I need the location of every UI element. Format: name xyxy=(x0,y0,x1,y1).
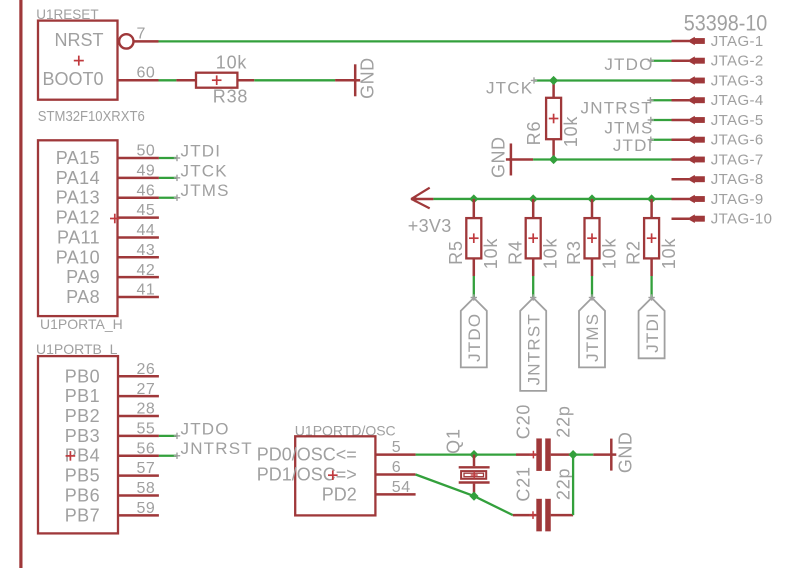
wire junction area JTAG-7 xyxy=(533,158,671,160)
pin name BOOT0 xyxy=(42,69,103,89)
NRST pin inversion circle xyxy=(119,34,133,48)
junction bus R5 xyxy=(469,194,478,203)
resistor R6 top pin xyxy=(552,80,555,97)
ground GND2 at R6 xyxy=(488,137,512,179)
svg-text:+3V3: +3V3 xyxy=(408,216,452,236)
pin name PD1/OSC=&gt; xyxy=(257,464,357,484)
name C20 xyxy=(514,404,534,439)
svg-text:59: 59 xyxy=(137,500,156,517)
origin cross R2 xyxy=(647,233,657,243)
label cross JNTRST xyxy=(647,97,653,103)
svg-text:10k: 10k xyxy=(561,116,581,148)
resistor R4 body xyxy=(526,218,541,258)
svg-text:22p: 22p xyxy=(554,468,574,500)
supply label +3V3 xyxy=(408,216,452,236)
pin number 7 xyxy=(137,25,146,42)
svg-text:JTAG-6: JTAG-6 xyxy=(711,132,764,149)
svg-text:JTCK: JTCK xyxy=(486,78,533,97)
label cross JTDO xyxy=(648,58,654,64)
svg-text:PA9: PA9 xyxy=(66,267,100,287)
junction bus R3 xyxy=(587,194,596,203)
svg-text:JTMS: JTMS xyxy=(604,118,653,137)
resistor R6 body xyxy=(546,98,561,139)
net label JTMS xyxy=(604,118,653,137)
label cross JTDI xyxy=(174,155,180,161)
label cross JTDO PB xyxy=(174,433,180,439)
resistor R5 body xyxy=(466,218,481,258)
pin name NRST xyxy=(55,30,104,50)
net label JTDI xyxy=(613,136,654,155)
resistor R38 left pin xyxy=(176,79,196,82)
wire GND to R6 bottom xyxy=(509,158,533,161)
pin name PD2 xyxy=(322,484,357,504)
net label JNTRST at PB xyxy=(181,439,253,458)
pin number 5 xyxy=(392,439,401,456)
svg-text:JTDI: JTDI xyxy=(643,312,662,353)
IC U1RESET name label xyxy=(36,7,98,22)
junction crystal bottom xyxy=(469,492,478,501)
pin 55 wire (PB3) xyxy=(118,435,159,438)
pin 49 wire (PA14) xyxy=(118,177,159,180)
origin cross U1PORTA_H xyxy=(110,214,120,224)
svg-text:PA8: PA8 xyxy=(66,287,100,307)
pin number 45 xyxy=(137,202,156,219)
svg-text:PA14: PA14 xyxy=(56,168,100,188)
name R4 xyxy=(505,240,525,265)
resistor R3 body xyxy=(585,218,600,258)
pin 50 wire (PA15) xyxy=(118,157,159,160)
svg-text:26: 26 xyxy=(137,361,156,378)
svg-text:10k: 10k xyxy=(659,238,679,270)
svg-text:JTAG-8: JTAG-8 xyxy=(711,171,764,188)
svg-text:R4: R4 xyxy=(505,240,525,265)
pin number 55 xyxy=(137,420,156,437)
value 10k of R3 xyxy=(599,238,619,270)
label cross JTMS xyxy=(174,195,180,201)
pin name PA9 xyxy=(66,267,100,287)
svg-text:GND: GND xyxy=(357,57,377,99)
resistor R4 top pin xyxy=(532,199,535,218)
svg-text:10k: 10k xyxy=(541,238,561,270)
svg-text:45: 45 xyxy=(137,202,156,219)
svg-text:R2: R2 xyxy=(624,240,644,265)
pin name PA11 xyxy=(57,227,100,247)
wire net JTDI stub at PA xyxy=(159,157,177,159)
svg-text:JTAG-1: JTAG-1 xyxy=(711,33,764,50)
pin 27 wire (PB1) xyxy=(118,395,159,398)
net flag JTDO xyxy=(461,298,487,368)
net flag JTDI xyxy=(639,298,665,358)
wire R38 to GND xyxy=(254,79,335,81)
resistor R2 top pin xyxy=(650,199,653,218)
svg-text:JTDI: JTDI xyxy=(613,136,654,155)
crystal Q1 bottom plate xyxy=(459,481,490,483)
net label JNTRST xyxy=(581,99,653,118)
junction bus R2 xyxy=(647,194,656,203)
resistor R2 body xyxy=(644,218,659,258)
origin cross Q1 xyxy=(471,472,478,479)
svg-text:PA11: PA11 xyxy=(57,227,100,247)
pin 7 wire (NRST) xyxy=(134,40,159,43)
pin 59 wire (PB7) xyxy=(118,514,159,517)
pin number 27 xyxy=(137,381,156,398)
svg-text:JTAG-3: JTAG-3 xyxy=(711,72,764,89)
svg-text:44: 44 xyxy=(137,222,156,239)
svg-text:PB7: PB7 xyxy=(65,505,100,525)
origin cross R4 xyxy=(528,233,538,243)
origin cross R3 xyxy=(587,233,597,243)
wire R4 to flag xyxy=(532,276,534,298)
IC U1RESET box xyxy=(38,21,118,100)
svg-text:43: 43 xyxy=(137,242,156,259)
wire net JTDO stub xyxy=(651,60,672,62)
label cross JNTRST PB xyxy=(174,453,180,459)
origin cross R5 xyxy=(469,233,479,243)
pin number 43 xyxy=(137,242,156,259)
origin cross C20 xyxy=(530,451,538,459)
pin name PD0/OSC&lt;= xyxy=(257,445,357,465)
junction bus R4 xyxy=(529,194,538,203)
svg-text:JTMS: JTMS xyxy=(181,181,230,200)
pin number 57 xyxy=(137,460,156,477)
svg-text:6: 6 xyxy=(392,459,401,476)
net label JTDI at PA xyxy=(181,142,222,161)
pin 46 wire (PA13) xyxy=(118,196,159,199)
wire PD1 diagonal xyxy=(416,475,513,516)
resistor R6 bottom pin xyxy=(552,139,555,159)
name Q1 xyxy=(443,428,463,454)
wire net JTCK stub at PA xyxy=(159,177,177,179)
svg-text:JNTRST: JNTRST xyxy=(524,313,543,385)
pin 26 wire (PB0) xyxy=(118,375,159,378)
origin cross R6 xyxy=(549,114,559,124)
pin name PA13 xyxy=(56,188,100,208)
origin cross U1RESET xyxy=(74,56,84,66)
pin 41 wire (PA8) xyxy=(118,296,159,299)
wire net JTDI stub xyxy=(651,139,672,141)
net label JTDO xyxy=(604,55,653,74)
origin cross C21 xyxy=(529,511,537,519)
svg-text:PD0/OSC<=: PD0/OSC<= xyxy=(257,445,357,465)
origin cross U1PORTB_L xyxy=(66,451,76,461)
net label JTCK at PA xyxy=(181,161,228,180)
pin number 58 xyxy=(137,480,156,497)
svg-text:22p: 22p xyxy=(554,405,574,437)
pin 5 wire (PD0) xyxy=(375,453,415,456)
pin number 59 xyxy=(137,500,156,517)
svg-text:GND: GND xyxy=(488,137,508,179)
wire crystal to C20 xyxy=(474,453,516,455)
pin 45 wire (PA12) xyxy=(118,216,159,219)
svg-text:JTAG-7: JTAG-7 xyxy=(711,151,764,168)
pin 43 wire (PA10) xyxy=(118,256,159,259)
ground GND3 at C20 xyxy=(610,432,635,474)
pin name PB1 xyxy=(65,386,100,406)
net flag JNTRST xyxy=(520,298,546,391)
wire +3V3 bus to JTAG-9 xyxy=(433,198,671,200)
svg-text:JTAG-9: JTAG-9 xyxy=(711,191,764,208)
pin number 49 xyxy=(137,162,156,179)
wire PD0 net to crystal xyxy=(416,453,474,455)
resistor R38 body xyxy=(196,73,237,88)
name R2 xyxy=(624,240,644,265)
IC U1PORTD/OSC box xyxy=(295,436,375,515)
svg-text:42: 42 xyxy=(137,262,156,279)
pin name PB6 xyxy=(65,485,100,505)
pin number 41 xyxy=(137,282,156,299)
connector pin JTAG-8 xyxy=(672,171,764,188)
svg-text:60: 60 xyxy=(137,64,156,81)
pin 42 wire (PA9) xyxy=(118,276,159,279)
capacitor C21 right pin xyxy=(551,514,573,517)
name R5 xyxy=(446,240,466,265)
svg-text:JTMS: JTMS xyxy=(583,313,602,362)
svg-text:Q1: Q1 xyxy=(443,428,463,454)
connector pin JTAG-4 xyxy=(672,92,764,109)
pin number 60 xyxy=(137,64,156,81)
pin name PA10 xyxy=(56,247,100,267)
resistor R38 right pin xyxy=(237,79,254,82)
svg-text:R38: R38 xyxy=(213,86,248,106)
pin 28 wire (PB2) xyxy=(118,415,159,418)
wire GND3 pin xyxy=(593,453,610,456)
svg-text:JNTRST: JNTRST xyxy=(581,99,653,118)
connector pin JTAG-1 xyxy=(672,33,764,50)
crystal Q1 inner body xyxy=(464,473,484,477)
svg-text:5: 5 xyxy=(392,439,401,456)
svg-text:PD1/OSC=>: PD1/OSC=> xyxy=(257,464,357,484)
svg-text:49: 49 xyxy=(137,162,156,179)
capacitor C21 plates xyxy=(536,499,550,531)
pin name PA12 xyxy=(56,208,100,228)
value 22p of C21 xyxy=(554,468,574,500)
pin name PB7 xyxy=(65,505,100,525)
ground GND1 at R38 xyxy=(354,57,377,99)
pin 60 wire (BOOT0) xyxy=(118,79,159,82)
resistor R5 top pin xyxy=(473,199,476,218)
origin cross R38 xyxy=(212,75,222,85)
svg-text:PA13: PA13 xyxy=(56,188,100,208)
svg-text:46: 46 xyxy=(137,182,156,199)
svg-text:PA10: PA10 xyxy=(56,247,100,267)
svg-text:JTAG-10: JTAG-10 xyxy=(711,211,773,228)
connector pin JTAG-2 xyxy=(672,53,764,70)
label cross JTMS xyxy=(648,117,654,123)
resistor R4 bottom pin xyxy=(532,258,535,276)
svg-text:10k: 10k xyxy=(599,238,619,270)
junction crystal top xyxy=(469,450,478,459)
pin name PB5 xyxy=(65,466,100,486)
connector pin JTAG-6 xyxy=(672,132,764,149)
value 10k of R2 xyxy=(659,238,679,270)
supply +3V3 arrow xyxy=(411,188,434,209)
svg-text:50: 50 xyxy=(137,143,156,160)
svg-text:U1PORTA_H: U1PORTA_H xyxy=(40,316,123,332)
svg-text:PB2: PB2 xyxy=(65,406,100,426)
svg-text:R5: R5 xyxy=(446,240,466,265)
svg-text:PA12: PA12 xyxy=(56,208,100,228)
origin cross U1PORTD/OSC xyxy=(328,470,338,480)
svg-text:BOOT0: BOOT0 xyxy=(42,69,103,89)
crystal Q1 bottom wire xyxy=(473,484,476,496)
name R6 xyxy=(524,121,544,146)
resistor R2 bottom pin xyxy=(650,258,653,276)
wire GND pin xyxy=(335,79,355,82)
svg-text:C21: C21 xyxy=(514,466,534,501)
svg-text:58: 58 xyxy=(137,480,156,497)
svg-text:7: 7 xyxy=(137,25,146,42)
svg-text:PA15: PA15 xyxy=(56,148,100,168)
svg-text:U1PORTB_L: U1PORTB_L xyxy=(36,341,118,357)
connector pin JTAG-7 xyxy=(672,151,764,168)
connector value 53398-10 xyxy=(684,11,768,36)
value 10k of R4 xyxy=(541,238,561,270)
crystal Q1 top plate xyxy=(459,466,490,468)
value 10k of R6 xyxy=(561,116,581,148)
pin 56 wire (PB4) xyxy=(118,454,159,457)
IC U1PORTB_L box xyxy=(38,356,118,533)
pin name PB0 xyxy=(65,366,100,386)
capacitor C20 plates xyxy=(536,439,550,471)
part label STM32F10XRXT6 xyxy=(38,109,145,125)
net flag JTMS xyxy=(579,298,605,368)
wire BOOT0 to R38 xyxy=(159,79,177,81)
pin name PA14 xyxy=(56,168,100,188)
pin 6 wire (PD1) xyxy=(375,473,415,476)
pin name PB3 xyxy=(65,426,100,446)
pin number 54 xyxy=(392,479,411,496)
label cross flag JTDI xyxy=(648,294,654,300)
connector pin JTAG-3 xyxy=(672,72,764,89)
svg-text:PB5: PB5 xyxy=(65,466,100,486)
pin 57 wire (PB5) xyxy=(118,474,159,477)
svg-text:C20: C20 xyxy=(514,404,534,439)
name R3 xyxy=(564,240,584,265)
pin number 50 xyxy=(137,143,156,160)
svg-text:PD2: PD2 xyxy=(322,484,357,504)
junction R6 bottom xyxy=(549,155,558,164)
connector pin JTAG-5 xyxy=(672,112,764,129)
wire R2 to flag xyxy=(650,276,652,298)
wire net NRST to JTAG-1 xyxy=(159,40,672,42)
wire net JTDO stub at PB xyxy=(159,435,177,437)
pin 44 wire (PA11) xyxy=(118,236,159,239)
svg-text:JTCK: JTCK xyxy=(181,161,228,180)
svg-text:PB1: PB1 xyxy=(65,386,100,406)
pin number 26 xyxy=(137,361,156,378)
wire net JNTRST stub at PB xyxy=(159,455,177,457)
pin 54 wire (PD2) xyxy=(375,493,415,496)
part label U1PORTA_H xyxy=(40,316,123,332)
pin name PA8 xyxy=(66,287,100,307)
capacitor C21 left pin xyxy=(513,514,536,517)
wire C20 junction to GND xyxy=(573,453,593,455)
svg-text:GND: GND xyxy=(616,432,636,474)
wire net JNTRST stub xyxy=(650,99,671,101)
svg-text:JTDI: JTDI xyxy=(181,142,222,161)
net label JTMS at PA xyxy=(181,181,230,200)
wire net JTMS stub at PA xyxy=(159,197,177,199)
name C21 xyxy=(514,466,534,501)
svg-text:STM32F10XRXT6: STM32F10XRXT6 xyxy=(38,109,145,125)
pin number 6 xyxy=(392,459,401,476)
pin number 44 xyxy=(137,222,156,239)
pin number 28 xyxy=(137,401,156,418)
IC U1PORTA_H box xyxy=(38,140,118,316)
frame border left line xyxy=(19,0,22,568)
capacitor C20 right pin xyxy=(551,453,573,456)
svg-text:28: 28 xyxy=(137,401,156,418)
crystal Q1 body xyxy=(461,471,486,479)
junction R6 top xyxy=(549,76,558,85)
pin number 46 xyxy=(137,182,156,199)
net label JTDO at PB xyxy=(181,419,230,438)
pin name PB2 xyxy=(65,406,100,426)
svg-text:57: 57 xyxy=(137,460,156,477)
label cross flag JTMS xyxy=(589,294,595,300)
wire net JTCK from label xyxy=(534,79,672,81)
svg-text:10k: 10k xyxy=(481,238,501,270)
svg-text:10k: 10k xyxy=(216,52,248,72)
svg-text:PB3: PB3 xyxy=(65,426,100,446)
wire C21 up to C20 net xyxy=(572,455,574,515)
name R38 xyxy=(213,86,248,106)
wire R3 to flag xyxy=(591,276,593,298)
svg-text:54: 54 xyxy=(392,479,411,496)
wire net JTMS stub xyxy=(651,119,672,121)
pin name PB4 xyxy=(65,446,100,466)
svg-text:41: 41 xyxy=(137,282,156,299)
svg-text:53398-10: 53398-10 xyxy=(684,11,768,36)
net label JTCK xyxy=(486,78,533,97)
label cross JTCK xyxy=(531,77,537,83)
svg-text:27: 27 xyxy=(137,381,156,398)
part label U1PORTD/OSC xyxy=(295,422,396,438)
value 22p of C20 xyxy=(554,405,574,437)
part label U1PORTB_L xyxy=(36,341,118,357)
svg-text:JTAG-5: JTAG-5 xyxy=(711,112,764,129)
svg-text:R3: R3 xyxy=(564,240,584,265)
svg-text:JTDO: JTDO xyxy=(604,55,653,74)
pin number 42 xyxy=(137,262,156,279)
pin number 56 xyxy=(137,440,156,457)
label cross flag JNTRST xyxy=(530,294,536,300)
label cross JTDI xyxy=(648,137,654,143)
svg-text:JTAG-2: JTAG-2 xyxy=(711,53,764,70)
pin 58 wire (PB6) xyxy=(118,494,159,497)
svg-text:JNTRST: JNTRST xyxy=(181,439,253,458)
svg-text:R6: R6 xyxy=(524,121,544,146)
resistor R5 bottom pin xyxy=(473,258,476,276)
svg-text:PB6: PB6 xyxy=(65,485,100,505)
connector pin JTAG-10 xyxy=(672,211,773,228)
crystal Q1 top wire xyxy=(473,455,476,467)
wire R5 to flag xyxy=(473,276,475,298)
value 10k of R5 xyxy=(481,238,501,270)
value 10k of R38 xyxy=(216,52,248,72)
svg-text:NRST: NRST xyxy=(55,30,104,50)
label cross flag JTDO xyxy=(471,294,477,300)
svg-text:56: 56 xyxy=(137,440,156,457)
connector pin JTAG-9 xyxy=(672,191,764,208)
svg-text:55: 55 xyxy=(137,420,156,437)
svg-text:JTDO: JTDO xyxy=(465,313,484,362)
capacitor C20 left pin xyxy=(516,453,536,456)
svg-text:PB0: PB0 xyxy=(65,366,100,386)
svg-text:JTAG-4: JTAG-4 xyxy=(711,92,764,109)
junction C20 right xyxy=(569,450,578,459)
svg-text:JTDO: JTDO xyxy=(181,419,230,438)
